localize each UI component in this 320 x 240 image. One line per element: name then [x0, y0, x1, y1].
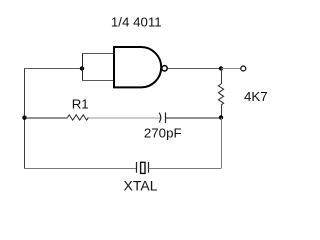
- wire lower input stub: [82, 80, 114, 82]
- resistor 4K7: [218, 84, 223, 105]
- node feedback junction: [219, 115, 223, 119]
- wire capacitor to feedback junction: [166, 117, 222, 119]
- op-amp U1 output inversion bubble: [162, 66, 167, 71]
- svg-text:270pF: 270pF: [144, 125, 182, 140]
- svg-text:4K7: 4K7: [244, 89, 268, 104]
- capacitor C 270pF straight plate: [165, 112, 167, 123]
- crystal XTAL left plate: [136, 162, 138, 173]
- capacitor C 270pF curved plate: [159, 113, 161, 123]
- node left rail junction: [22, 116, 26, 120]
- node output terminal: [241, 66, 246, 71]
- node input junction: [80, 66, 84, 70]
- wire bottom right: [149, 168, 222, 170]
- crystal XTAL body: [141, 162, 145, 173]
- wire upper input stub: [82, 53, 114, 55]
- crystal XTAL right plate: [148, 162, 150, 173]
- node output junction: [219, 66, 223, 70]
- wire right rail upper: [221, 69, 223, 85]
- wire output to terminal: [221, 68, 240, 70]
- wire left rail: [24, 68, 26, 169]
- svg-text:1/4 4011: 1/4 4011: [111, 15, 162, 30]
- wire bottom left: [24, 168, 137, 170]
- wire left rail to R1: [24, 117, 68, 119]
- wire right rail lower: [221, 118, 223, 169]
- wire right rail middle: [221, 105, 223, 118]
- wire gate output: [168, 68, 221, 70]
- wire input tie: [82, 53, 84, 80]
- wire gate input feed: [24, 68, 82, 70]
- resistor R1: [68, 115, 89, 120]
- svg-text:R1: R1: [72, 96, 89, 111]
- wire R1 to capacitor: [88, 117, 160, 119]
- op-amp U1 NAND gate 1/4 4011 body: [114, 47, 161, 87]
- svg-text:XTAL: XTAL: [124, 177, 158, 193]
